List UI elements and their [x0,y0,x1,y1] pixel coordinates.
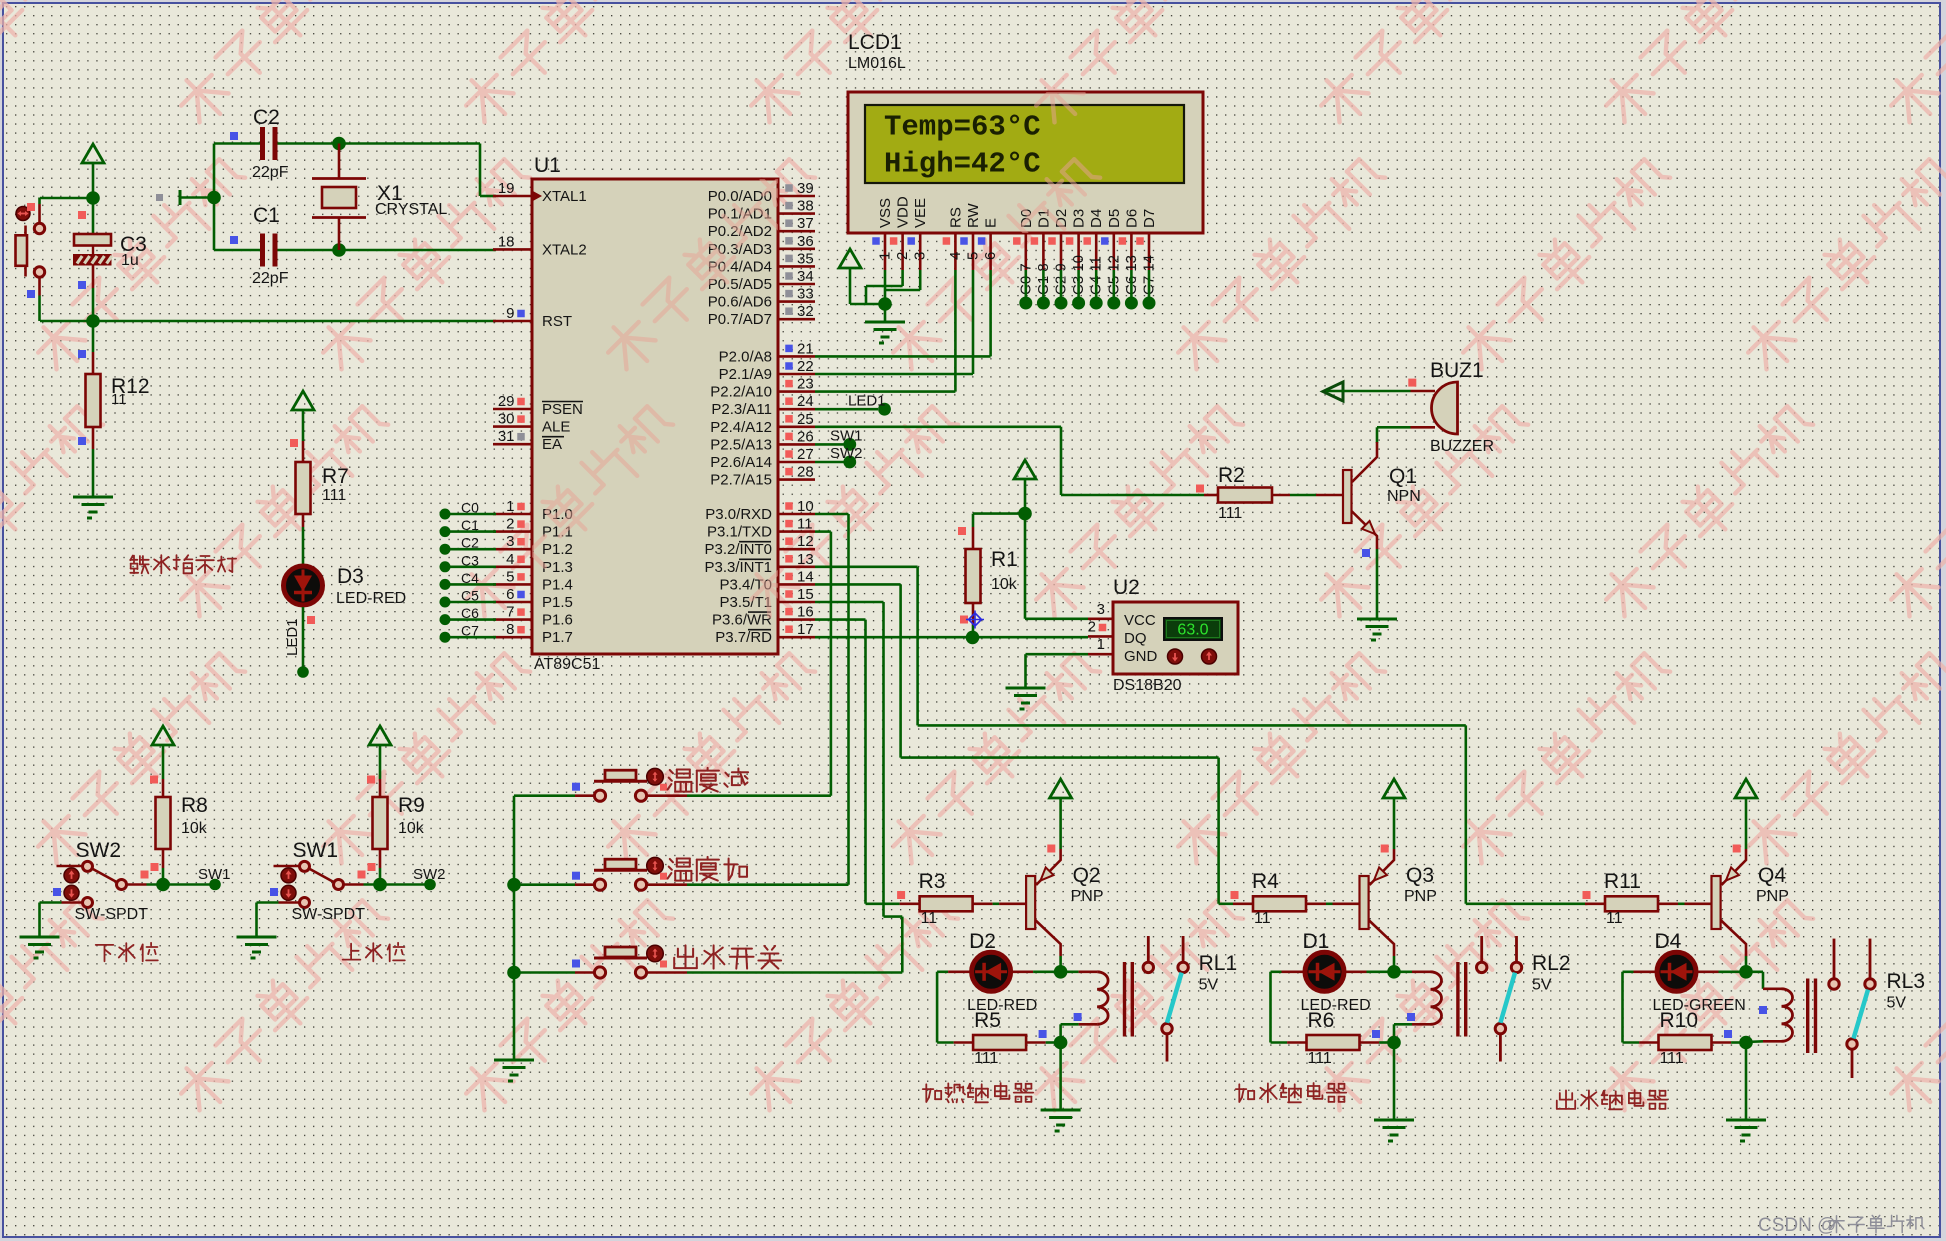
svg-text:R8: R8 [181,794,208,817]
svg-text:Q4: Q4 [1758,864,1786,887]
svg-text:P3.1/TXD: P3.1/TXD [707,524,772,541]
svg-text:VSS: VSS [877,198,894,228]
svg-text:C1: C1 [461,517,479,533]
svg-text:SW1: SW1 [198,866,231,883]
svg-text:BUZZER: BUZZER [1430,438,1494,455]
svg-text:VDD: VDD [895,196,912,228]
svg-text:Q2: Q2 [1073,864,1101,887]
svg-text:BUZ1: BUZ1 [1430,359,1484,382]
svg-text:D7: D7 [1141,209,1158,228]
svg-text:24: 24 [797,393,814,410]
svg-text:VEE: VEE [912,198,929,228]
svg-text:33: 33 [797,286,814,303]
svg-text:XTAL2: XTAL2 [542,241,587,258]
svg-text:PNP: PNP [1756,888,1789,905]
svg-text:14: 14 [797,568,814,585]
svg-text:16: 16 [797,604,814,621]
svg-text:U2: U2 [1113,576,1140,599]
svg-text:10k: 10k [181,820,208,837]
svg-text:High=42°C: High=42°C [884,148,1041,181]
svg-text:P3.7/RD: P3.7/RD [715,629,772,646]
svg-text:P2.7/A15: P2.7/A15 [710,472,772,489]
svg-text:LED1: LED1 [848,393,886,410]
svg-text:SW1: SW1 [293,839,339,862]
svg-text:11: 11 [921,910,938,927]
svg-text:PNP: PNP [1071,888,1104,905]
svg-text:63.0: 63.0 [1177,622,1208,639]
svg-text:R6: R6 [1308,1009,1335,1032]
svg-text:111: 111 [1308,1050,1332,1067]
svg-text:111: 111 [322,487,346,504]
svg-text:30: 30 [498,411,515,428]
svg-text:R4: R4 [1252,870,1279,893]
svg-text:10k: 10k [398,820,425,837]
svg-text:R5: R5 [974,1009,1001,1032]
svg-text:9: 9 [506,305,514,322]
svg-text:P2.1/A9: P2.1/A9 [719,366,772,383]
svg-text:R10: R10 [1660,1009,1699,1032]
svg-text:NPN: NPN [1387,488,1421,505]
svg-text:18: 18 [498,233,515,250]
svg-text:DS18B20: DS18B20 [1113,677,1182,694]
svg-text:3: 3 [912,252,929,260]
svg-text:RS: RS [947,207,964,228]
svg-text:SW-SPDT: SW-SPDT [75,906,149,923]
svg-text:4: 4 [947,252,964,260]
svg-text:3: 3 [1097,601,1105,618]
svg-text:26: 26 [797,428,814,445]
svg-text:C7: C7 [461,623,479,639]
svg-text:D5: D5 [1106,209,1123,228]
svg-text:U1: U1 [534,154,561,177]
svg-text:22pF: 22pF [252,164,289,181]
svg-text:D4: D4 [1655,930,1682,953]
svg-text:111: 111 [974,1050,998,1067]
svg-text:37: 37 [797,215,814,232]
svg-text:3: 3 [506,533,514,550]
svg-text:28: 28 [797,464,814,481]
svg-text:P1.5: P1.5 [542,594,573,611]
svg-text:C3: C3 [461,552,479,568]
svg-text:R7: R7 [322,465,349,488]
svg-text:11: 11 [1254,910,1271,927]
svg-text:RST: RST [542,313,572,330]
svg-text:36: 36 [797,233,814,250]
svg-text:RL1: RL1 [1199,952,1238,975]
svg-text:Q1: Q1 [1389,465,1417,488]
svg-text:C4: C4 [461,570,479,586]
svg-text:D1: D1 [1303,930,1330,953]
svg-text:R11: R11 [1604,870,1641,893]
svg-text:SW1: SW1 [830,427,863,444]
svg-text:35: 35 [797,250,814,267]
svg-text:CRYSTAL: CRYSTAL [375,201,447,218]
svg-text:5V: 5V [1532,977,1552,994]
svg-text:SW2: SW2 [830,445,863,462]
svg-text:RW: RW [965,202,982,228]
svg-text:P3.0/RXD: P3.0/RXD [705,506,772,523]
svg-text:38: 38 [797,198,814,215]
svg-text:R1: R1 [991,548,1018,571]
svg-text:111: 111 [1218,505,1242,522]
svg-text:1: 1 [1097,636,1105,653]
svg-text:RL3: RL3 [1887,970,1926,993]
svg-text:PSEN: PSEN [542,401,583,418]
svg-text:10: 10 [797,498,814,515]
svg-text:P2.3/A11: P2.3/A11 [711,401,772,418]
svg-text:5V: 5V [1199,977,1219,994]
svg-text:17: 17 [797,621,814,638]
svg-text:31: 31 [498,428,515,445]
svg-text:11: 11 [1606,910,1623,927]
svg-text:C0: C0 [461,500,479,516]
svg-text:12: 12 [797,533,814,550]
svg-text:7: 7 [506,604,514,621]
svg-text:15: 15 [797,586,814,603]
svg-text:XTAL1: XTAL1 [542,188,587,205]
svg-text:6: 6 [982,252,999,260]
svg-text:C2: C2 [253,106,280,129]
svg-text:D2: D2 [969,930,996,953]
svg-text:D4: D4 [1088,209,1105,228]
svg-text:P3.6/WR: P3.6/WR [712,612,772,629]
svg-text:P1.6: P1.6 [542,612,573,629]
svg-text:AT89C51: AT89C51 [534,656,601,673]
svg-text:VCC: VCC [1124,612,1156,629]
svg-text:P1.2: P1.2 [542,541,573,558]
svg-text:11: 11 [111,391,127,408]
svg-text:111: 111 [1660,1050,1684,1067]
svg-text:D6: D6 [1123,209,1140,228]
svg-text:D3: D3 [337,565,364,588]
svg-text:22pF: 22pF [252,270,289,287]
svg-text:P1.4: P1.4 [542,576,573,593]
svg-text:EA: EA [542,436,562,453]
svg-text:Q3: Q3 [1406,864,1434,887]
svg-text:1: 1 [506,498,514,515]
svg-text:5: 5 [506,568,514,585]
svg-text:27: 27 [797,446,814,463]
svg-text:25: 25 [797,411,814,428]
svg-text:R2: R2 [1218,464,1245,487]
svg-text:39: 39 [797,180,814,197]
svg-text:LED1: LED1 [284,618,301,656]
svg-text:8: 8 [506,621,514,638]
svg-text:C5: C5 [461,588,479,604]
svg-text:C6: C6 [461,605,479,621]
svg-text:PNP: PNP [1404,888,1437,905]
svg-text:13: 13 [797,551,814,568]
svg-text:34: 34 [797,268,814,285]
svg-text:2: 2 [894,252,911,260]
svg-text:P2.5/A13: P2.5/A13 [710,436,772,453]
svg-text:CSDN @: CSDN @ [1758,1215,1836,1236]
svg-text:P2.6/A14: P2.6/A14 [710,454,772,471]
svg-text:21: 21 [797,340,814,357]
svg-text:P1.7: P1.7 [542,629,573,646]
svg-text:LCD1: LCD1 [848,31,902,54]
svg-text:5: 5 [965,252,982,260]
svg-text:RL2: RL2 [1532,952,1571,975]
svg-text:P3.2/INT0: P3.2/INT0 [704,541,772,558]
svg-text:6: 6 [506,586,514,603]
svg-text:4: 4 [506,551,514,568]
svg-text:29: 29 [498,393,515,410]
svg-text:P3.3/INT1: P3.3/INT1 [704,559,772,576]
svg-text:P0.7/AD7: P0.7/AD7 [708,311,772,328]
svg-text:SW-SPDT: SW-SPDT [292,906,366,923]
svg-text:SW2: SW2 [413,866,446,883]
svg-text:ALE: ALE [542,419,570,436]
svg-text:11: 11 [797,516,813,533]
svg-text:32: 32 [797,303,814,320]
svg-text:P0.6/AD6: P0.6/AD6 [708,294,772,311]
svg-text:P2.2/A10: P2.2/A10 [710,384,772,401]
svg-text:C2: C2 [461,535,479,551]
svg-text:Temp=63°C: Temp=63°C [884,111,1041,144]
svg-text:2: 2 [1088,618,1096,635]
svg-text:C1: C1 [253,204,280,227]
svg-text:R3: R3 [919,870,946,893]
svg-text:P0.5/AD5: P0.5/AD5 [708,276,772,293]
svg-text:5V: 5V [1887,995,1907,1012]
svg-text:P2.4/A12: P2.4/A12 [710,419,772,436]
svg-text:22: 22 [797,358,814,375]
svg-text:P3.5/T1: P3.5/T1 [719,594,772,611]
svg-text:R9: R9 [398,794,425,817]
svg-text:LM016L: LM016L [848,55,906,72]
svg-text:23: 23 [797,376,814,393]
svg-text:E: E [983,218,1000,228]
svg-text:1: 1 [877,252,894,260]
svg-text:1u: 1u [121,252,139,269]
svg-text:P2.0/A8: P2.0/A8 [719,348,772,365]
svg-text:SW2: SW2 [76,839,122,862]
svg-text:LED-RED: LED-RED [336,590,406,607]
svg-text:GND: GND [1124,648,1158,665]
svg-text:DQ: DQ [1124,630,1147,647]
svg-text:2: 2 [506,516,514,533]
svg-text:19: 19 [498,180,515,197]
svg-text:10k: 10k [991,576,1018,593]
svg-text:D3: D3 [1071,209,1088,228]
